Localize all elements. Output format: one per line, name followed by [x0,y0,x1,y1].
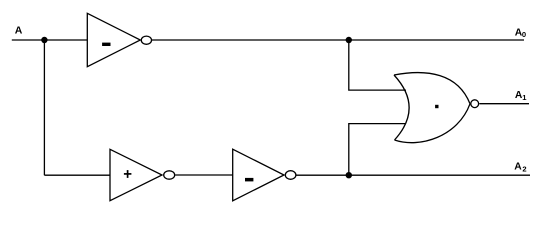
wire U1 output to A0 [152,39,524,41]
node J1 junction dot [346,37,352,43]
svg-text:2: 2 [522,164,526,173]
wire junction J1 drop to NOR input 1 [349,40,406,90]
wire input A [12,39,88,41]
value label - on U3 [245,178,253,182]
value label - on U1 [102,43,110,46]
label A0 (output) [515,28,526,40]
wire junction J2 rise to NOR input 2 [349,124,406,176]
inverter U1 [87,13,140,66]
node J2 junction dot [346,172,352,178]
buffer U2 [110,149,162,200]
wire bottom rail to buffer [44,174,110,176]
wire U3 output to A2 [296,174,530,176]
wire U4 output to A1 [479,103,529,105]
svg-text:A: A [15,24,23,36]
wire node A vertical [43,40,45,175]
wire U2 to U3 [175,174,233,176]
node A junction dot [41,37,47,43]
value label + on U2 [124,170,131,178]
svg-text:1: 1 [522,93,527,102]
inverter U3 [233,149,284,201]
nor-gate U4 [394,73,470,143]
svg-text:A: A [514,161,522,172]
value label dot on U4 [435,105,438,108]
label A1 (output) [515,90,527,102]
label A2 (output) [514,161,526,173]
svg-text:0: 0 [522,30,526,39]
